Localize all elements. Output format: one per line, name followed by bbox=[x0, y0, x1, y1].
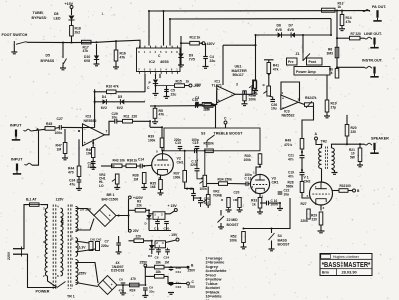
svg-text:TR 1: TR 1 bbox=[67, 295, 75, 299]
svg-text:22k: 22k bbox=[137, 203, 143, 207]
ground bbox=[141, 188, 147, 190]
capacitor C21 47n bbox=[288, 154, 305, 162]
wire bbox=[83, 97, 95, 128]
power switch S1 bbox=[57, 282, 66, 288]
wire IC2 pin to top rail bbox=[148, 11, 150, 46]
svg-text:Brm: Brm bbox=[322, 271, 329, 275]
svg-text:100: 100 bbox=[346, 184, 352, 188]
resistor R24 470 bbox=[130, 277, 140, 292]
pin 6 bbox=[72, 230, 74, 234]
svg-text:220n: 220n bbox=[174, 138, 181, 142]
svg-text:S3: S3 bbox=[201, 131, 205, 135]
wire bbox=[207, 187, 209, 195]
resistor R40 bbox=[254, 81, 257, 90]
svg-text:D: D bbox=[145, 222, 147, 226]
terminal B 250V bbox=[187, 264, 197, 273]
resistor R37 100k bbox=[173, 171, 187, 183]
wire tone row bbox=[207, 183, 219, 185]
svg-text:20V: 20V bbox=[133, 229, 140, 233]
wire bbox=[205, 43, 207, 66]
jack PA out bbox=[363, 10, 371, 12]
heater CH1 CH2 bbox=[89, 237, 102, 250]
label TR1 bbox=[67, 295, 75, 299]
terminal C 270V bbox=[187, 280, 196, 289]
svg-text:B,1 AT: B,1 AT bbox=[26, 198, 38, 202]
pin 11 bbox=[71, 237, 74, 241]
svg-text:R7: R7 bbox=[351, 32, 355, 36]
resistor R32 100 bbox=[333, 184, 352, 192]
label 220k bbox=[301, 219, 309, 223]
wire op-amp out bbox=[105, 121, 115, 135]
ground bbox=[120, 293, 126, 295]
ground bbox=[277, 209, 283, 211]
svg-text:V: V bbox=[200, 177, 204, 179]
svg-text:Z1: Z1 bbox=[296, 52, 300, 56]
svg-text:+: + bbox=[218, 98, 220, 102]
svg-text:CH1: CH1 bbox=[177, 160, 184, 164]
wire C rail bbox=[164, 276, 187, 283]
svg-text:1M: 1M bbox=[134, 177, 139, 181]
label VR2 TONE bbox=[213, 190, 223, 198]
svg-text:C27: C27 bbox=[57, 117, 63, 121]
wire bbox=[180, 36, 182, 43]
wire bbox=[320, 225, 322, 231]
resistor R6 3M3 bbox=[327, 47, 339, 58]
resistor R36 1k bbox=[122, 159, 137, 168]
svg-text:560k: 560k bbox=[286, 184, 294, 188]
wire bbox=[13, 45, 15, 52]
TR1 secondary 6.3V bbox=[76, 238, 79, 257]
capacitor C30 bbox=[195, 96, 199, 107]
svg-text:1M: 1M bbox=[233, 198, 238, 202]
capacitor C19 100p bbox=[192, 138, 200, 149]
resistor R17 47k bbox=[82, 40, 92, 53]
capacitor C17 2200 bbox=[190, 151, 203, 179]
ground bbox=[339, 29, 345, 31]
svg-text:+: + bbox=[111, 283, 113, 287]
svg-text:C 18: C 18 bbox=[186, 187, 193, 191]
capacitor C12 on plate rail bbox=[195, 149, 197, 154]
svg-text:47u: 47u bbox=[70, 182, 76, 186]
label INSTR.OUT. bbox=[362, 59, 383, 63]
feedback loop wire bbox=[281, 82, 300, 102]
pin 7 bbox=[315, 185, 317, 189]
svg-text:47k: 47k bbox=[83, 49, 89, 53]
terminal C bbox=[224, 116, 227, 124]
svg-text:47k: 47k bbox=[113, 84, 119, 88]
label C20 220u bbox=[234, 191, 240, 195]
wire bbox=[170, 286, 172, 293]
svg-text:100k: 100k bbox=[230, 238, 238, 242]
capacitor C20 bbox=[164, 222, 169, 224]
svg-text:220: 220 bbox=[312, 217, 318, 221]
capacitor C29 10u bbox=[112, 112, 118, 123]
svg-text:2: 2 bbox=[307, 194, 309, 198]
wire bbox=[194, 198, 201, 207]
wire bbox=[142, 164, 152, 167]
resistor R19 27p bbox=[325, 100, 337, 112]
switch Z1 bbox=[303, 53, 310, 61]
wire plate up bbox=[162, 151, 164, 154]
svg-text:22u: 22u bbox=[210, 59, 216, 63]
svg-text:6V8: 6V8 bbox=[84, 59, 90, 63]
label IC3 NE5532 bbox=[282, 109, 295, 117]
pin 4 bbox=[216, 87, 218, 91]
svg-text:R27: R27 bbox=[301, 202, 307, 206]
svg-text:C14: C14 bbox=[138, 158, 144, 162]
svg-text:BYPASS: BYPASS bbox=[41, 59, 55, 63]
svg-text:D6: D6 bbox=[277, 24, 282, 28]
svg-text:CH2: CH2 bbox=[304, 179, 311, 183]
svg-text:7: 7 bbox=[315, 185, 317, 189]
svg-text:1k: 1k bbox=[186, 80, 190, 84]
svg-text:47k: 47k bbox=[273, 68, 279, 72]
zener D1 bbox=[145, 210, 152, 225]
wire bbox=[330, 19, 332, 35]
label R51 bbox=[204, 142, 215, 146]
capacitor C18 100n bbox=[186, 187, 207, 195]
pin 5 bbox=[72, 204, 74, 208]
terminal -15V bbox=[166, 233, 180, 242]
wire bbox=[117, 283, 123, 293]
label UE1 MASTER bbox=[232, 65, 248, 78]
ground bbox=[332, 173, 338, 175]
output transformer secondary bbox=[332, 148, 335, 169]
svg-text:R34: R34 bbox=[218, 178, 224, 182]
svg-text:LED: LED bbox=[54, 16, 61, 20]
svg-text:470 k: 470 k bbox=[284, 143, 292, 147]
IC U2 4053 analog switch bbox=[137, 46, 181, 74]
potentiometer P1 bbox=[262, 84, 271, 96]
resistor R4 220 bbox=[134, 235, 144, 243]
wire bbox=[64, 129, 66, 158]
capacitor C11 33u bbox=[169, 266, 182, 274]
label C1 C20 bbox=[154, 226, 169, 230]
label S3 TREBLE BOOST bbox=[201, 131, 243, 135]
wire bbox=[48, 276, 58, 287]
label SPEAKER bbox=[371, 136, 389, 140]
wire bridge out bbox=[116, 199, 129, 216]
wire bbox=[211, 91, 216, 105]
capacitor C5 22u bbox=[164, 89, 176, 97]
svg-text:C8: C8 bbox=[155, 256, 159, 260]
wire bbox=[128, 216, 130, 233]
wire bass row bbox=[244, 198, 291, 229]
svg-text:22u: 22u bbox=[171, 92, 177, 96]
wire V1 plate bbox=[321, 169, 323, 183]
label S2 MID BOOST bbox=[227, 218, 240, 227]
label INPUT 2 bbox=[11, 158, 23, 162]
zener D9 7V5 bbox=[178, 54, 195, 62]
op-amp IC1 TL071 bbox=[217, 86, 236, 103]
resistor R26 18k bbox=[155, 270, 165, 278]
wire bbox=[185, 182, 194, 201]
wire bbox=[76, 209, 95, 216]
pin 3 bbox=[236, 83, 238, 87]
svg-text:6V8: 6V8 bbox=[276, 28, 282, 32]
wire bbox=[159, 248, 168, 255]
svg-text:10k: 10k bbox=[120, 159, 126, 163]
wire cathode bbox=[320, 205, 322, 211]
wire bbox=[243, 243, 245, 247]
svg-text:R45: R45 bbox=[46, 122, 52, 126]
ground bbox=[168, 293, 174, 295]
triode V2 bbox=[152, 154, 174, 176]
resistor R3 22k bbox=[135, 200, 146, 212]
capacitor C9 33u bbox=[143, 286, 154, 294]
ground bbox=[324, 116, 330, 118]
svg-text:100k: 100k bbox=[173, 175, 181, 179]
wire bbox=[180, 43, 182, 53]
svg-text:20V: 20V bbox=[195, 83, 202, 87]
label S5 BYPASS bbox=[41, 54, 55, 63]
pin 5 bbox=[156, 149, 158, 153]
wire IC2 pin to top rail 2 bbox=[163, 11, 165, 46]
wire corner bbox=[223, 44, 256, 46]
svg-text:LO: LO bbox=[99, 184, 104, 188]
box Power Amp bbox=[294, 67, 330, 76]
capacitor C8 bbox=[155, 250, 161, 260]
svg-text:1M: 1M bbox=[165, 261, 170, 265]
svg-text:CH2: CH2 bbox=[96, 237, 102, 241]
svg-text:1k: 1k bbox=[197, 36, 201, 40]
label 6,3V bbox=[79, 246, 87, 250]
wire bbox=[148, 219, 150, 231]
wire bbox=[76, 262, 99, 285]
svg-text:1k8: 1k8 bbox=[150, 185, 156, 189]
TR1 core bbox=[53, 205, 56, 290]
svg-text:6V2: 6V2 bbox=[117, 106, 123, 110]
wire heater rail bbox=[117, 284, 144, 286]
wire bbox=[337, 66, 365, 68]
svg-text:C24: C24 bbox=[164, 256, 170, 260]
svg-text:+: + bbox=[84, 141, 86, 145]
resistor R43 10k bbox=[112, 159, 126, 168]
svg-text:5: 5 bbox=[156, 149, 158, 153]
ground bbox=[11, 52, 17, 54]
svg-text:+: + bbox=[282, 97, 284, 101]
wire B rail bbox=[164, 266, 187, 268]
resistor R29 220 bbox=[311, 212, 323, 225]
resistor R20 220 bbox=[345, 125, 357, 137]
svg-text:100n: 100n bbox=[245, 173, 252, 177]
capacitor C22 10u bbox=[278, 189, 290, 197]
wire diode row bbox=[256, 34, 332, 36]
label 2X 15V bbox=[80, 208, 92, 212]
input jack 2 plug bbox=[13, 164, 21, 174]
wire bbox=[341, 26, 343, 29]
terminal -20V bbox=[128, 229, 139, 233]
svg-text:10k: 10k bbox=[86, 152, 92, 156]
treble boost box bbox=[164, 128, 260, 151]
resistor R27 220k bbox=[301, 202, 311, 219]
terminal A bbox=[315, 132, 318, 140]
input jack 1 plug bbox=[12, 130, 20, 140]
label PA OUT. bbox=[372, 5, 386, 9]
wire bbox=[346, 136, 348, 144]
wire bbox=[161, 148, 163, 151]
resistor R39 100k bbox=[148, 127, 164, 147]
wire bbox=[66, 285, 69, 288]
wire bbox=[337, 37, 365, 39]
terminal +15V bbox=[168, 204, 178, 212]
wire bbox=[269, 203, 281, 208]
regulator 7815 bbox=[153, 212, 165, 220]
svg-text:7: 7 bbox=[106, 129, 108, 133]
svg-text:C 1: C 1 bbox=[154, 226, 159, 230]
svg-text:50k117: 50k117 bbox=[233, 73, 244, 77]
switch S5 contact bbox=[13, 41, 15, 45]
svg-text:255V: 255V bbox=[79, 272, 88, 276]
wire bbox=[61, 205, 65, 208]
svg-text:270V: 270V bbox=[188, 285, 197, 289]
svg-text:IC2: IC2 bbox=[149, 59, 156, 64]
svg-text:R15: R15 bbox=[176, 80, 182, 84]
jack line out bbox=[365, 37, 373, 39]
wire IC2 pin to bus bbox=[169, 19, 171, 46]
zener D3 bbox=[144, 241, 155, 258]
ground bbox=[94, 64, 100, 66]
svg-text:6V2: 6V2 bbox=[101, 106, 107, 110]
TR1 core 2 bbox=[68, 205, 71, 290]
svg-text:C6: C6 bbox=[119, 278, 123, 282]
resistor R13 1k bbox=[322, 2, 344, 13]
title block BASSMASTER bbox=[320, 254, 372, 276]
resistor R18 2k2 bbox=[70, 26, 81, 37]
svg-text:R36: R36 bbox=[127, 159, 133, 163]
zener D4 6V2 bbox=[101, 95, 107, 110]
pot VR2a bbox=[112, 174, 119, 187]
svg-text:TUBE/: TUBE/ bbox=[33, 11, 44, 15]
potentiometer UE1 bbox=[249, 80, 256, 94]
resistor R52 100k bbox=[230, 229, 246, 243]
label VR2 CH1 HI-LO bbox=[99, 173, 106, 188]
svg-text:BR 1: BR 1 bbox=[107, 193, 115, 197]
wire bbox=[96, 44, 98, 56]
resistor R22 220 bbox=[199, 103, 212, 112]
pin 1 bbox=[253, 171, 255, 175]
resistor R44 470 bbox=[68, 166, 81, 177]
mains plug bbox=[13, 247, 22, 257]
wire bbox=[302, 35, 304, 53]
capacitor C1 bbox=[155, 219, 160, 223]
wire bbox=[156, 85, 190, 87]
svg-text:100k: 100k bbox=[148, 138, 156, 142]
fuse F1 bbox=[28, 203, 42, 206]
pin 6 bbox=[159, 176, 161, 180]
pin 3 bbox=[323, 206, 325, 210]
resistor R41 47k bbox=[267, 63, 279, 74]
wire bbox=[71, 36, 73, 43]
ground bbox=[158, 193, 164, 195]
svg-text:LINE OUT.: LINE OUT. bbox=[364, 32, 382, 36]
wire bbox=[166, 86, 168, 97]
label TUBE/BYPASS bbox=[32, 11, 47, 20]
label TR2 bbox=[321, 140, 328, 144]
label 220V mains bbox=[7, 251, 11, 260]
svg-text:B40 C1500: B40 C1500 bbox=[102, 197, 119, 201]
svg-text:MASTER: MASTER bbox=[232, 69, 248, 73]
label S4 BASS BOOST bbox=[278, 234, 291, 247]
wire junctions bbox=[36, 10, 361, 287]
svg-text:R24: R24 bbox=[130, 288, 136, 292]
svg-text:420V: 420V bbox=[207, 42, 216, 46]
wire bbox=[129, 209, 136, 211]
wire feedback bbox=[92, 139, 94, 167]
resistor R31 8u bbox=[357, 155, 359, 157]
wire bbox=[165, 211, 175, 214]
svg-text:PA OUT.: PA OUT. bbox=[372, 5, 386, 9]
triode V1 bbox=[310, 182, 333, 205]
svg-text:*BASS‡MASTER*: *BASS‡MASTER* bbox=[322, 260, 371, 269]
resistor R15 1k bbox=[175, 80, 190, 88]
label 255V bbox=[79, 272, 88, 276]
svg-text:220u: 220u bbox=[101, 244, 109, 248]
wire bbox=[301, 175, 303, 182]
ground bbox=[76, 189, 82, 191]
wire bbox=[220, 223, 222, 227]
svg-text:C3: C3 bbox=[195, 96, 199, 100]
wire bbox=[160, 175, 162, 192]
resistor R7 220 bbox=[350, 32, 362, 40]
LED D8 bbox=[69, 16, 75, 21]
ground top bbox=[264, 60, 274, 63]
svg-text:1M: 1M bbox=[57, 148, 62, 152]
svg-text:7V5: 7V5 bbox=[189, 58, 195, 62]
wire bbox=[326, 75, 328, 100]
plug instr out bbox=[370, 67, 378, 77]
switch S2 MID bbox=[218, 210, 225, 223]
ground bbox=[114, 188, 120, 190]
pin 1 bbox=[282, 91, 284, 95]
resistor R16 47n pulldown bbox=[114, 41, 126, 61]
capacitor C13 100n bbox=[228, 173, 252, 186]
wire bbox=[271, 241, 273, 249]
ground bbox=[152, 122, 158, 124]
TR1 winding 2 bbox=[61, 208, 64, 276]
pin 3 bbox=[72, 284, 74, 288]
svg-text:28.03.90: 28.03.90 bbox=[342, 270, 357, 275]
resistor R33 1k bbox=[251, 194, 262, 208]
pin 3 bbox=[298, 98, 300, 102]
zener D5 6V2 bbox=[117, 95, 125, 110]
terminal -24V bbox=[189, 84, 201, 88]
zener D10 6V8 bbox=[84, 55, 99, 63]
resistor R25 18k bbox=[155, 261, 170, 269]
ground bbox=[357, 165, 363, 167]
svg-text:6,3V: 6,3V bbox=[79, 246, 87, 250]
ground bbox=[164, 97, 170, 99]
pin 1 bbox=[72, 257, 74, 261]
label 1. bbox=[102, 12, 105, 16]
svg-text:D5: D5 bbox=[118, 95, 122, 99]
resistor R45 10k bbox=[45, 120, 55, 130]
capacitor C21 4n7 bbox=[198, 197, 210, 205]
svg-text:220: 220 bbox=[351, 130, 357, 134]
pin 2 bbox=[307, 194, 309, 198]
svg-text:47n: 47n bbox=[288, 174, 294, 178]
wire bbox=[259, 208, 261, 212]
wire bbox=[229, 208, 240, 210]
op-amp IC3a NE5532 bbox=[83, 124, 105, 146]
TR1 primary taps bbox=[43, 205, 59, 279]
legend transformer wire colours bbox=[206, 256, 227, 300]
capacitor C14 10n bbox=[137, 156, 145, 168]
wire bbox=[268, 74, 270, 87]
svg-text:−: − bbox=[218, 88, 220, 92]
svg-text:100k: 100k bbox=[249, 97, 257, 101]
resistor R9 220 bbox=[204, 104, 213, 112]
